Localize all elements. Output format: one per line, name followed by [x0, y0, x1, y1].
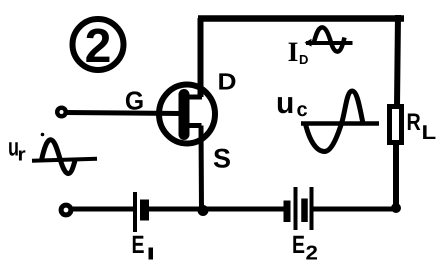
- wire: drain up to top rail: [198, 18, 204, 97]
- pin label S: [214, 149, 230, 168]
- label uc (output voltage): [278, 97, 307, 116]
- wire: source down to bottom rail: [199, 126, 205, 210]
- battery E1: [135, 192, 145, 232]
- junction node: source meets bottom rail: [198, 205, 209, 216]
- ink speck: [41, 133, 45, 137]
- waveform ur (sine): [32, 140, 97, 174]
- battery E2: [287, 187, 312, 230]
- label E1: [133, 236, 153, 260]
- pin label D: [219, 73, 235, 89]
- wire: bottom rail, E1 to E2: [147, 207, 286, 212]
- wire: top rail horizontal: [198, 15, 404, 22]
- wire: bottom rail, E2 to right rail: [311, 207, 398, 212]
- wire: right rail vertical: [396, 15, 398, 209]
- transistor VT (JFET): [159, 85, 215, 144]
- label RL: [408, 113, 436, 139]
- wire: bottom rail, terminal to E1: [71, 207, 133, 212]
- input terminal (gate side, open circle): [57, 108, 66, 117]
- waveform ID (sine with left arrow): [305, 27, 353, 51]
- label E2: [293, 236, 317, 260]
- junction node: bottom right corner: [391, 203, 401, 213]
- figure number 2 (circled): [73, 19, 124, 70]
- wire: input terminal to gate: [65, 113, 180, 114]
- pin label G: [126, 91, 143, 109]
- resistor RL: [390, 107, 402, 143]
- input terminal (bottom, open circle): [61, 205, 71, 215]
- waveform uc (sine): [301, 91, 379, 152]
- label ID (drain current): [289, 43, 308, 64]
- label ur (input voltage): [9, 142, 25, 160]
